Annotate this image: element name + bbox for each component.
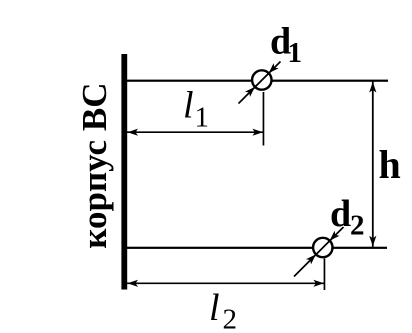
svg-text:1: 1	[195, 102, 210, 134]
diameter dimension line d1 (45 degree)	[239, 62, 281, 104]
extension line below circle 2	[324, 259, 326, 291]
svg-text:1: 1	[288, 37, 303, 69]
svg-text:l: l	[209, 287, 220, 329]
label d1	[270, 21, 302, 70]
svg-text:2: 2	[350, 210, 365, 242]
antenna element circle 2 (d2)	[313, 238, 332, 257]
antenna element circle 1 (d1)	[252, 70, 271, 89]
wire: top horizontal line	[127, 80, 388, 82]
svg-text:2: 2	[223, 304, 238, 333]
svg-text:l: l	[183, 85, 194, 127]
label d2	[330, 193, 365, 242]
label l1	[183, 85, 209, 134]
diameter dimension line d2 (45 degree)	[294, 227, 344, 277]
dimension l1 (double arrow)	[127, 129, 263, 136]
label l2	[209, 287, 237, 333]
svg-text:d: d	[330, 193, 351, 235]
svg-text:корпус ВС: корпус ВС	[75, 83, 114, 249]
extension line below circle 1	[263, 92, 265, 146]
wire: bottom horizontal line	[127, 247, 387, 249]
svg-text:h: h	[379, 142, 401, 187]
dimension h vertical (double arrow)	[369, 82, 376, 247]
dimension l2 (double arrow)	[127, 280, 324, 287]
aircraft body thick vertical line (корпус ВС)	[121, 54, 127, 290]
